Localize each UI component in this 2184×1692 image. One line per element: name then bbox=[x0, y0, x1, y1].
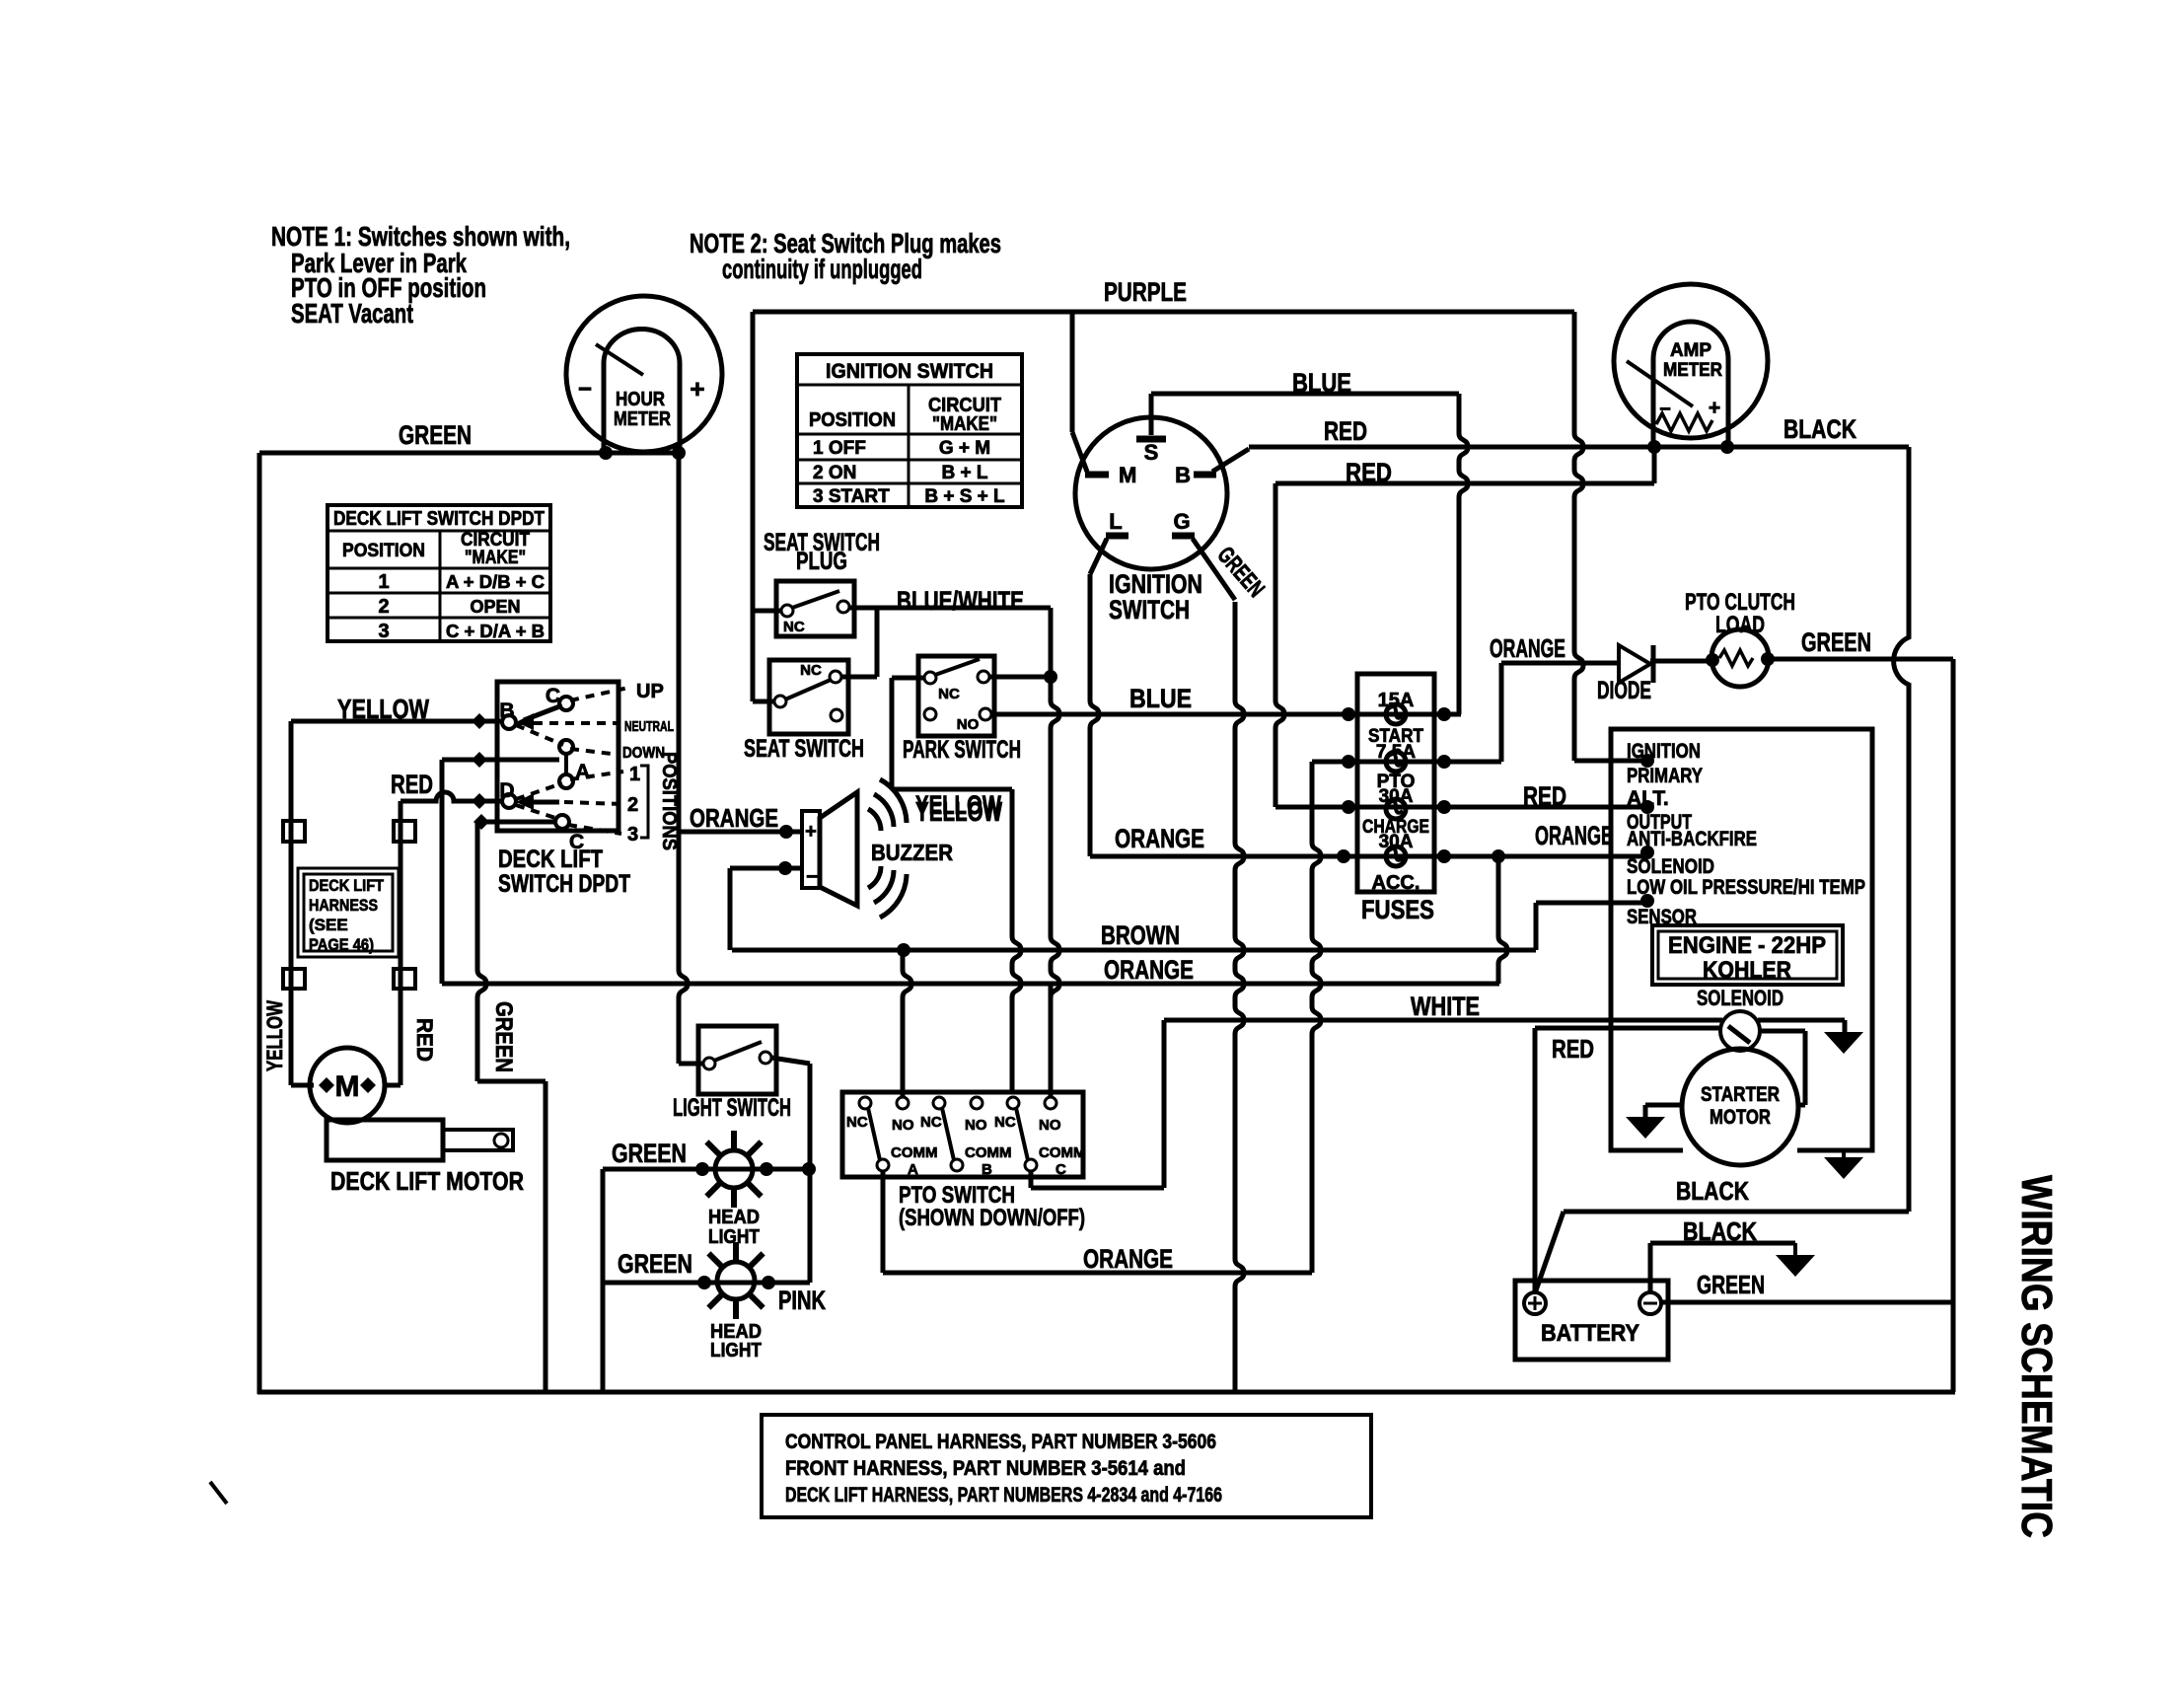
wire RED battery to solenoid bbox=[1533, 1028, 1538, 1293]
wire PTO NO-C up bbox=[1049, 984, 1054, 1097]
head light 1 bbox=[715, 1150, 753, 1188]
svg-text:BATTERY: BATTERY bbox=[1541, 1320, 1639, 1347]
buzzer sound arcs bbox=[868, 809, 881, 831]
wire plug left to border bbox=[753, 609, 781, 614]
wire green vertical deck bbox=[477, 822, 486, 1081]
wire light switch left bbox=[679, 1062, 703, 1067]
deck lift switch terminal B bbox=[502, 715, 516, 729]
svg-text:METER: METER bbox=[1663, 360, 1722, 381]
deck lift dashed UP bbox=[570, 688, 628, 700]
box DECK LIFT HARNESS bbox=[298, 868, 399, 957]
svg-text:GREEN: GREEN bbox=[490, 1001, 517, 1072]
svg-text:RED: RED bbox=[1346, 458, 1392, 487]
deck lift dashed NEUTRAL bbox=[518, 721, 619, 725]
park switch contacts bbox=[924, 672, 936, 684]
deck lift switch box bbox=[497, 682, 619, 831]
svg-text:ACC.: ACC. bbox=[1372, 872, 1420, 894]
wire BLACK battery minus bbox=[1648, 1243, 1653, 1292]
svg-text:A + D/B + C: A + D/B + C bbox=[446, 572, 545, 592]
diode D1 bbox=[1619, 645, 1650, 683]
wire WHITE comm C bbox=[1029, 1171, 1034, 1188]
svg-text:YELLOW: YELLOW bbox=[262, 1000, 287, 1071]
svg-text:DECK LIFT: DECK LIFT bbox=[498, 846, 603, 873]
svg-text:1 OFF: 1 OFF bbox=[813, 438, 866, 459]
svg-text:RED: RED bbox=[391, 770, 433, 799]
svg-text:B + S + L: B + S + L bbox=[924, 486, 1005, 507]
ignition terminal G bbox=[1172, 533, 1195, 540]
svg-text:LIGHT: LIGHT bbox=[710, 1340, 762, 1361]
ignition terminal L bbox=[1106, 533, 1128, 540]
deck lift lever B bbox=[524, 705, 562, 720]
svg-text:C: C bbox=[546, 685, 560, 707]
connector deck lift lower left bbox=[283, 969, 305, 989]
table IGNITION SWITCH bbox=[797, 354, 1022, 507]
wire ignition M to purple bbox=[1070, 314, 1075, 432]
wire BLACK amp meter bbox=[1727, 445, 1909, 450]
positions bracket bbox=[640, 766, 648, 838]
svg-text:DECK LIFT MOTOR: DECK LIFT MOTOR bbox=[330, 1166, 524, 1196]
ignition terminal B bbox=[1194, 472, 1216, 478]
svg-text:GREEN: GREEN bbox=[1801, 627, 1871, 657]
wire right border green vertical bbox=[1951, 659, 1956, 1392]
fuse START bbox=[1386, 752, 1406, 772]
svg-text:PAGE 46): PAGE 46) bbox=[309, 935, 374, 954]
deck lift switch terminal C top bbox=[559, 697, 573, 710]
wire yellow vertical bbox=[289, 721, 294, 1084]
node seat circuit junction bbox=[1044, 670, 1057, 684]
battery minus post bbox=[1639, 1292, 1661, 1314]
wire green to head light 1 bbox=[601, 1169, 606, 1392]
svg-text:PLUG: PLUG bbox=[796, 548, 847, 575]
ignition switch circle bbox=[1075, 417, 1227, 569]
svg-text:SEAT SWITCH: SEAT SWITCH bbox=[744, 735, 864, 763]
node pto clutch right bbox=[1761, 652, 1775, 666]
wire hour meter plus vertical bbox=[679, 453, 688, 1064]
svg-text:RED: RED bbox=[1552, 1034, 1594, 1064]
wire yellow to motor bbox=[289, 1084, 294, 1085]
svg-text:B: B bbox=[1175, 463, 1191, 487]
svg-text:OPEN: OPEN bbox=[470, 597, 520, 617]
svg-text:NEUTRAL: NEUTRAL bbox=[624, 718, 674, 735]
wire green vertical from G bbox=[1235, 602, 1244, 1392]
svg-text:BLACK: BLACK bbox=[1784, 414, 1856, 444]
svg-text:NO: NO bbox=[957, 716, 980, 733]
svg-text:CONTROL PANEL HARNESS, PART NU: CONTROL PANEL HARNESS, PART NUMBER 3-560… bbox=[785, 1431, 1216, 1453]
wire ORANGE row3 bbox=[442, 982, 1499, 987]
wire seat sw left to border bbox=[753, 699, 775, 704]
svg-text:BLACK: BLACK bbox=[1683, 1216, 1757, 1246]
table DECK LIFT SWITCH DPDT bbox=[328, 505, 550, 641]
deck lift dashed 2 bbox=[564, 802, 623, 804]
wire orange vertical from A bbox=[440, 760, 445, 984]
amp meter AM1 bbox=[1614, 284, 1768, 438]
svg-text:RED: RED bbox=[1324, 416, 1367, 446]
wire light switch right bbox=[771, 1058, 810, 1064]
svg-text:NC: NC bbox=[920, 1114, 942, 1131]
svg-text:"MAKE": "MAKE" bbox=[465, 548, 526, 568]
svg-text:SWITCH: SWITCH bbox=[1109, 595, 1190, 625]
park switch box bbox=[918, 656, 994, 736]
svg-text:PARK SWITCH: PARK SWITCH bbox=[903, 736, 1021, 764]
svg-text:DECK LIFT HARNESS, PART NUMBER: DECK LIFT HARNESS, PART NUMBERS 4-2834 a… bbox=[785, 1484, 1222, 1507]
wire ignition L leg to orange bbox=[1090, 539, 1107, 574]
node low oil sensor terminal bbox=[1640, 894, 1654, 908]
wire fuse row4 orange bbox=[1090, 854, 1396, 859]
svg-text:+: + bbox=[690, 374, 704, 404]
fuse CHARGE bbox=[1386, 846, 1406, 866]
svg-text:GREEN: GREEN bbox=[1697, 1270, 1765, 1299]
wire ignition S up (blue) bbox=[1149, 394, 1154, 435]
starter motor M2 bbox=[1682, 1049, 1798, 1165]
wire ORANGE diode row bbox=[1501, 661, 1619, 666]
svg-text:ORANGE: ORANGE bbox=[690, 803, 778, 833]
buzzer symbol bbox=[802, 811, 820, 888]
svg-text:FUSES: FUSES bbox=[1361, 895, 1434, 924]
svg-text:G: G bbox=[1173, 509, 1190, 534]
svg-text:YELLOW: YELLOW bbox=[915, 796, 1002, 827]
wire PURPLE top border bbox=[753, 310, 1574, 315]
stray mark bbox=[210, 1482, 227, 1504]
svg-text:ANTI-BACKFIRE: ANTI-BACKFIRE bbox=[1627, 828, 1757, 850]
fuse PTO bbox=[1386, 799, 1406, 819]
svg-text:ALT.: ALT. bbox=[1627, 787, 1669, 810]
node amp meter left leg bbox=[1647, 440, 1661, 454]
svg-text:NO: NO bbox=[1039, 1117, 1061, 1134]
svg-text:IGNITION SWITCH: IGNITION SWITCH bbox=[826, 360, 993, 383]
wire park NC right to junction bbox=[989, 675, 1051, 680]
svg-text:NO: NO bbox=[892, 1117, 914, 1134]
wire left border (green) bbox=[257, 453, 262, 1394]
svg-text:L: L bbox=[1109, 509, 1122, 534]
svg-text:STARTER: STARTER bbox=[1701, 1083, 1780, 1106]
engine box bbox=[1611, 729, 1872, 1150]
seat switch contacts bbox=[830, 671, 841, 683]
svg-text:ORANGE: ORANGE bbox=[1535, 821, 1613, 850]
svg-text:COMM: COMM bbox=[1039, 1144, 1086, 1161]
light switch contacts bbox=[703, 1058, 715, 1069]
svg-text:HOUR: HOUR bbox=[616, 389, 665, 410]
svg-text:WHITE: WHITE bbox=[1411, 992, 1480, 1021]
svg-text:GREEN: GREEN bbox=[612, 1139, 687, 1168]
svg-text:GREEN: GREEN bbox=[399, 420, 472, 450]
svg-text:SEAT Vacant: SEAT Vacant bbox=[291, 298, 413, 329]
svg-text:2: 2 bbox=[627, 794, 638, 816]
wire purple left leg bbox=[751, 312, 756, 700]
wire red vertical to PTO fuse bbox=[1275, 483, 1284, 807]
deck lift switch terminal D bbox=[502, 794, 516, 808]
wire RED from B to amp meter bbox=[1212, 449, 1249, 472]
svg-text:HARNESS: HARNESS bbox=[309, 896, 378, 915]
svg-text:WIRING SCHEMATIC: WIRING SCHEMATIC bbox=[2012, 1175, 2061, 1538]
svg-text:DIODE: DIODE bbox=[1597, 677, 1651, 704]
deck lift motor M bbox=[310, 1048, 385, 1123]
wire RED to D bbox=[400, 792, 502, 801]
connector deck lift upper left bbox=[283, 821, 305, 842]
deck lift actuator rod bbox=[443, 1130, 513, 1150]
svg-text:SOLENOID: SOLENOID bbox=[1697, 986, 1784, 1010]
wire BLUE from S to fuse bbox=[1151, 392, 1459, 397]
wire A terminal bbox=[442, 758, 559, 763]
connector deck lift upper right bbox=[394, 821, 415, 842]
svg-text:METER: METER bbox=[614, 408, 671, 430]
svg-text:SOLENOID: SOLENOID bbox=[1627, 855, 1714, 878]
PTO clutch load bbox=[1711, 629, 1769, 687]
wire YELLOW to B bbox=[291, 719, 502, 724]
wire fuse row1 blue bbox=[1348, 712, 1396, 717]
svg-text:LIGHT SWITCH: LIGHT SWITCH bbox=[673, 1094, 791, 1122]
wire buzzer minus down bbox=[730, 866, 802, 871]
svg-text:UP: UP bbox=[636, 681, 664, 702]
seat switch box bbox=[769, 660, 848, 734]
svg-text:PRIMARY: PRIMARY bbox=[1627, 765, 1703, 787]
svg-text:HEAD: HEAD bbox=[708, 1207, 760, 1228]
svg-text:+: + bbox=[805, 821, 817, 843]
svg-text:ORANGE: ORANGE bbox=[1083, 1244, 1173, 1274]
svg-text:1: 1 bbox=[378, 571, 389, 593]
svg-text:M: M bbox=[1119, 463, 1136, 487]
solenoid S1 bbox=[1720, 1011, 1760, 1051]
svg-text:POSITION: POSITION bbox=[342, 541, 425, 561]
svg-text:NC: NC bbox=[846, 1114, 868, 1131]
node pto clutch left bbox=[1706, 653, 1719, 667]
svg-text:B + L: B + L bbox=[942, 463, 988, 483]
PTO terminals top bbox=[859, 1097, 871, 1109]
deck lift dashed DOWN bbox=[516, 725, 563, 745]
svg-text:S: S bbox=[1144, 440, 1159, 465]
svg-text:NC: NC bbox=[783, 619, 805, 635]
svg-text:PINK: PINK bbox=[778, 1286, 826, 1315]
svg-text:COMM: COMM bbox=[965, 1144, 1012, 1161]
wire solenoid to starter bbox=[1760, 1029, 1805, 1034]
svg-text:IGNITION: IGNITION bbox=[1627, 740, 1701, 763]
svg-text:DECK LIFT: DECK LIFT bbox=[309, 876, 385, 895]
seat switch plug box bbox=[776, 581, 854, 636]
svg-text:BLUE: BLUE bbox=[1292, 368, 1351, 398]
svg-text:−: − bbox=[806, 866, 818, 888]
battery box bbox=[1515, 1281, 1668, 1360]
svg-text:DECK LIFT SWITCH DPDT: DECK LIFT SWITCH DPDT bbox=[333, 508, 545, 530]
svg-text:RED: RED bbox=[412, 1018, 437, 1062]
svg-text:3: 3 bbox=[627, 824, 638, 846]
wire fuse row2 start bbox=[1312, 760, 1396, 765]
ground arrow solenoid bbox=[1824, 1032, 1863, 1054]
svg-text:NC: NC bbox=[994, 1114, 1016, 1131]
wire GREEN top-left to hour meter bbox=[259, 451, 679, 456]
svg-text:BLUE: BLUE bbox=[1129, 684, 1192, 713]
ground arrow starter bbox=[1626, 1117, 1665, 1139]
svg-text:G + M: G + M bbox=[939, 438, 990, 459]
svg-text:3 START: 3 START bbox=[813, 486, 890, 507]
svg-text:SWITCH DPDT: SWITCH DPDT bbox=[498, 870, 630, 898]
svg-text:POSITION: POSITION bbox=[809, 409, 896, 431]
svg-text:MOTOR: MOTOR bbox=[1710, 1106, 1771, 1129]
svg-text:B: B bbox=[982, 1161, 992, 1178]
svg-text:1: 1 bbox=[629, 764, 640, 785]
wire white right of solenoid bbox=[1758, 1018, 1845, 1023]
fuse 15A bbox=[1386, 704, 1406, 724]
svg-text:continuity if unplugged: continuity if unplugged bbox=[722, 254, 922, 284]
svg-text:(SHOWN DOWN/OFF): (SHOWN DOWN/OFF) bbox=[899, 1205, 1085, 1231]
wire BLUE/WHITE bbox=[849, 606, 1051, 611]
fuse panel box bbox=[1357, 674, 1434, 892]
svg-text:(SEE: (SEE bbox=[309, 916, 348, 934]
svg-text:+: + bbox=[1709, 397, 1720, 419]
svg-text:PURPLE: PURPLE bbox=[1104, 277, 1187, 307]
box harness part numbers bbox=[762, 1415, 1371, 1517]
box ENGINE-22HP KOHLER bbox=[1652, 925, 1843, 985]
svg-text:BLUE/WHITE: BLUE/WHITE bbox=[897, 586, 1024, 616]
svg-text:GREEN: GREEN bbox=[618, 1249, 692, 1279]
svg-text:ORANGE: ORANGE bbox=[1115, 824, 1204, 853]
seat switch plug contacts bbox=[781, 605, 793, 617]
wire PTO NO-A up bbox=[903, 950, 911, 1097]
wire green to head light 2 bbox=[603, 1281, 810, 1286]
deck lift dashed 3 bbox=[516, 805, 558, 819]
svg-text:BLACK: BLACK bbox=[1676, 1176, 1749, 1206]
svg-text:YELLOW: YELLOW bbox=[337, 694, 429, 724]
svg-text:NC: NC bbox=[938, 686, 960, 702]
svg-text:AMP: AMP bbox=[1670, 340, 1711, 361]
svg-text:2 ON: 2 ON bbox=[813, 463, 856, 483]
wire YELLOW park NC to PTO bbox=[892, 676, 925, 681]
deck lift actuator body bbox=[327, 1120, 443, 1160]
PTO terminals comm bbox=[877, 1159, 889, 1171]
battery plus post bbox=[1524, 1292, 1546, 1314]
wire GREEN pto clutch bbox=[1768, 657, 1953, 662]
wire fuse row3 pto red bbox=[1275, 805, 1396, 810]
ground arrow battery bbox=[1776, 1255, 1815, 1277]
node hour meter plus junction bbox=[672, 446, 686, 460]
wire ignition G leg green diagonal bbox=[1193, 539, 1235, 600]
svg-text:FRONT HARNESS, PART NUMBER 3-5: FRONT HARNESS, PART NUMBER 3-5614 and bbox=[785, 1457, 1186, 1480]
deck lift dashed 1 bbox=[516, 783, 562, 799]
ignition terminal S bbox=[1136, 436, 1166, 443]
svg-text:3: 3 bbox=[378, 621, 389, 642]
svg-text:ORANGE: ORANGE bbox=[1490, 633, 1565, 663]
wire ORANGE to buzzer plus bbox=[679, 830, 802, 835]
svg-text:BUZZER: BUZZER bbox=[871, 840, 953, 865]
wire C bottom to green vertical bbox=[477, 820, 555, 825]
svg-text:LOAD: LOAD bbox=[1715, 612, 1765, 638]
svg-text:RED: RED bbox=[1523, 781, 1566, 811]
wire BLUE park NO to fuse bbox=[991, 712, 1348, 717]
wire red vertical deck bbox=[399, 801, 403, 1084]
node IGNITION PRIMARY terminal bbox=[1640, 754, 1654, 768]
svg-text:2: 2 bbox=[378, 596, 389, 618]
svg-text:"MAKE": "MAKE" bbox=[932, 413, 997, 435]
wire red to motor bbox=[399, 1084, 403, 1085]
ground arrow engine bottom right bbox=[1842, 1150, 1846, 1157]
hour meter HM1 bbox=[566, 296, 722, 452]
PTO levers bbox=[868, 1108, 880, 1160]
svg-text:KOHLER: KOHLER bbox=[1703, 957, 1791, 984]
node hour meter minus junction bbox=[599, 446, 613, 460]
svg-text:NC: NC bbox=[800, 662, 822, 679]
svg-text:A: A bbox=[908, 1161, 918, 1178]
wire BROWN bbox=[732, 948, 1536, 953]
svg-text:ENGINE - 22HP: ENGINE - 22HP bbox=[1668, 932, 1826, 959]
deck lift switch terminals A pair bbox=[559, 740, 573, 754]
deck lift switch terminal C bottom bbox=[555, 815, 569, 829]
wire ORANGE comm A bbox=[881, 1171, 886, 1273]
wire orange acc down to row3 bbox=[1498, 856, 1507, 984]
svg-text:BROWN: BROWN bbox=[1101, 920, 1180, 950]
light switch box bbox=[698, 1026, 776, 1094]
wire bottom border (green) bbox=[257, 1390, 1955, 1395]
wire RED second row bbox=[1275, 481, 1654, 486]
svg-text:C: C bbox=[1056, 1161, 1066, 1178]
svg-text:M: M bbox=[335, 1070, 360, 1103]
ignition terminal M bbox=[1085, 472, 1109, 478]
wire GREEN battery bbox=[1661, 1300, 1953, 1305]
svg-text:−: − bbox=[578, 376, 592, 403]
node ALT terminal bbox=[1640, 800, 1654, 814]
node amp meter right leg bbox=[1720, 440, 1734, 454]
connector deck lift lower right bbox=[394, 969, 415, 989]
wire starter left ground bbox=[1645, 1103, 1682, 1108]
svg-text:NO: NO bbox=[965, 1117, 987, 1134]
wire purple right leg to ignition primary bbox=[1574, 312, 1583, 761]
PTO switch box bbox=[842, 1092, 1083, 1177]
svg-text:COMM: COMM bbox=[891, 1144, 938, 1161]
wire seat sw NC up to blue/white bbox=[841, 675, 877, 680]
svg-text:LOW OIL PRESSURE/HI TEMP: LOW OIL PRESSURE/HI TEMP bbox=[1627, 876, 1865, 899]
svg-text:ORANGE: ORANGE bbox=[1104, 955, 1194, 985]
svg-text:C + D/A + B: C + D/A + B bbox=[446, 622, 545, 641]
node ANTI-BACKFIRE terminal bbox=[1640, 846, 1654, 859]
deck lift lever D bbox=[524, 800, 559, 805]
head light 2 bbox=[717, 1262, 755, 1299]
